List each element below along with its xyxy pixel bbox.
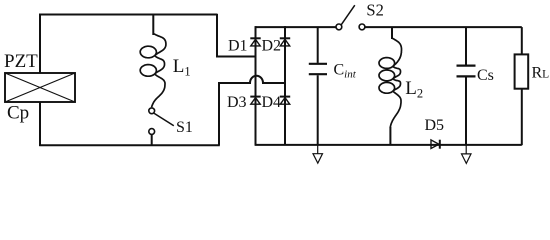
capacitor Cint <box>309 27 327 145</box>
wire : bottom rail <box>255 144 522 146</box>
wire : top rail left segment <box>256 26 337 28</box>
wire : bridge right branch <box>284 26 286 145</box>
svg-text:Cs: Cs <box>477 67 494 84</box>
wire : top rail right segment <box>365 26 522 28</box>
wire : L2 top stem <box>391 27 393 39</box>
svg-text:Cp: Cp <box>7 103 29 124</box>
svg-text:S2: S2 <box>366 1 383 20</box>
transducer PZT (crossed box) <box>5 73 75 102</box>
ground 2 <box>462 145 472 163</box>
wire B: bottom terminal to bridge right mid (with hop) <box>219 76 285 146</box>
inductor L2 <box>379 38 402 128</box>
wire : left loop top <box>39 14 217 16</box>
svg-text:D5: D5 <box>425 117 445 134</box>
wire : L2 bottom stem <box>389 127 391 145</box>
svg-text:PZT: PZT <box>4 51 38 72</box>
resistor RL <box>515 27 529 145</box>
svg-text:D1: D1 <box>228 38 248 55</box>
svg-text:S1: S1 <box>176 119 193 136</box>
diode D1 <box>250 38 260 46</box>
wire A: top terminal to bridge left mid <box>217 14 256 57</box>
svg-text:D4: D4 <box>262 94 282 111</box>
svg-text:D3: D3 <box>227 94 247 111</box>
wire : left loop bottom <box>39 144 220 146</box>
diode D5 <box>431 140 440 149</box>
wire : left vertical above PZT <box>39 14 41 73</box>
inductor L1 <box>140 34 166 108</box>
diode D4 <box>280 97 290 105</box>
svg-text:D2: D2 <box>262 38 282 55</box>
switch S1 <box>149 108 174 145</box>
wire : L1 top stem <box>152 14 154 35</box>
diode D3 <box>250 97 260 105</box>
ground 1 <box>313 145 323 163</box>
capacitor Cs <box>457 27 476 145</box>
diode D2 <box>280 38 290 46</box>
switch S2 <box>336 5 365 30</box>
wire : left vertical below PZT <box>39 102 41 146</box>
wire : bridge left branch <box>255 26 257 145</box>
